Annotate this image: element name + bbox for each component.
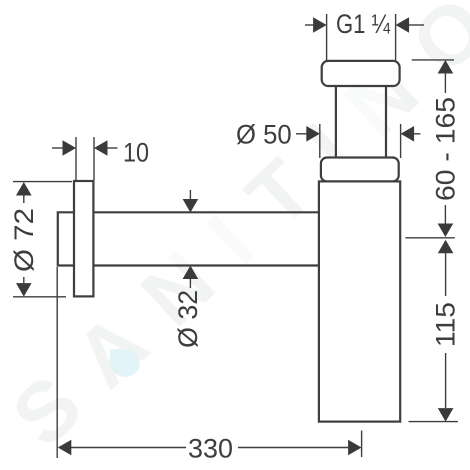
svg-text:10: 10 — [123, 138, 149, 168]
svg-text:Ø 50: Ø 50 — [236, 119, 292, 149]
svg-text:Ø 32: Ø 32 — [173, 290, 203, 348]
svg-text:Ø 72: Ø 72 — [9, 208, 39, 272]
svg-text:115: 115 — [430, 302, 460, 347]
svg-text:60 - 165: 60 - 165 — [430, 97, 460, 201]
svg-text:G1 ¼: G1 ¼ — [336, 9, 390, 39]
svg-text:330: 330 — [188, 434, 233, 464]
